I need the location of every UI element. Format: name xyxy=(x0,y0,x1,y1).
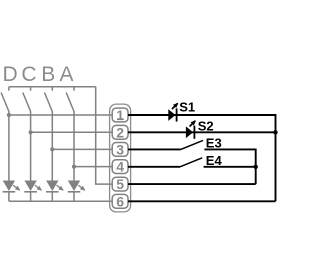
switch E3 blade xyxy=(181,140,203,149)
svg-text:3: 3 xyxy=(116,141,124,157)
svg-text:A: A xyxy=(59,63,73,86)
connector block outline xyxy=(110,104,131,212)
svg-text:5: 5 xyxy=(116,176,124,192)
wire bottom bus to terminal 6 xyxy=(9,200,113,202)
switch B stub xyxy=(51,87,53,91)
terminal 5 xyxy=(112,176,128,192)
terminal 4 xyxy=(112,159,128,175)
switch B blade xyxy=(45,93,53,112)
wire row 2 to terminal 2 xyxy=(31,131,113,133)
switch D blade xyxy=(1,93,9,112)
wire row 4 to terminal 4 xyxy=(74,166,113,168)
svg-text:E3: E3 xyxy=(206,135,222,150)
wire E4 to branch xyxy=(204,166,256,168)
terminal 1 xyxy=(112,107,128,123)
switch A stub xyxy=(73,87,75,91)
junction dot E branch xyxy=(254,165,258,169)
switch C blade xyxy=(23,93,31,112)
switch D stub xyxy=(8,87,10,91)
LED C xyxy=(24,181,41,192)
svg-text:B: B xyxy=(41,63,55,86)
junction dot node B row3 xyxy=(50,147,54,151)
svg-text:D: D xyxy=(3,63,18,86)
LED S2 xyxy=(186,121,195,139)
switch E4 blade xyxy=(180,158,202,167)
wire terminal 5 to branch xyxy=(128,183,256,185)
svg-text:E4: E4 xyxy=(206,153,223,168)
wire terminal 1 to S1 and right edge xyxy=(128,115,276,201)
switch C stub xyxy=(30,87,32,91)
wire E3 to branch xyxy=(204,149,255,184)
LED S1 xyxy=(168,103,177,121)
svg-text:S1: S1 xyxy=(179,100,195,115)
LED A xyxy=(68,181,85,192)
svg-text:6: 6 xyxy=(116,193,124,209)
wire column D xyxy=(8,112,10,181)
wire terminal 4 to switch E4 xyxy=(128,166,180,168)
wire LED C cathode lead xyxy=(30,192,32,202)
junction dot node D row1 xyxy=(7,113,11,117)
wire column B xyxy=(51,112,53,181)
svg-text:C: C xyxy=(21,63,36,86)
svg-text:2: 2 xyxy=(116,124,124,140)
wire column C xyxy=(30,112,32,181)
wire terminal 6 to right edge xyxy=(128,200,276,202)
junction dot node C row2 xyxy=(29,130,33,134)
wire column A xyxy=(73,112,75,181)
wire row 1 to terminal 1 xyxy=(9,114,113,116)
svg-text:4: 4 xyxy=(116,159,124,175)
terminal 2 xyxy=(112,124,128,140)
wire feed to terminal 5 xyxy=(96,87,113,184)
terminal 3 xyxy=(112,141,128,157)
LED B xyxy=(46,181,63,192)
wire LED D cathode lead xyxy=(8,192,10,202)
junction dot node A row4 xyxy=(72,165,76,169)
svg-text:S2: S2 xyxy=(198,118,214,133)
wire terminal 3 to switch E3 xyxy=(128,148,181,150)
switch A blade xyxy=(66,93,74,112)
wire terminal 2 to right edge xyxy=(128,131,276,133)
junction dot S branch xyxy=(273,130,277,134)
LED D xyxy=(3,181,20,192)
terminal 6 xyxy=(112,193,128,209)
svg-text:1: 1 xyxy=(116,107,124,123)
wire row 3 to terminal 3 xyxy=(52,148,112,150)
wire LED B cathode lead xyxy=(51,192,53,202)
wire top bus xyxy=(9,86,96,88)
wire LED A cathode lead xyxy=(73,192,75,202)
